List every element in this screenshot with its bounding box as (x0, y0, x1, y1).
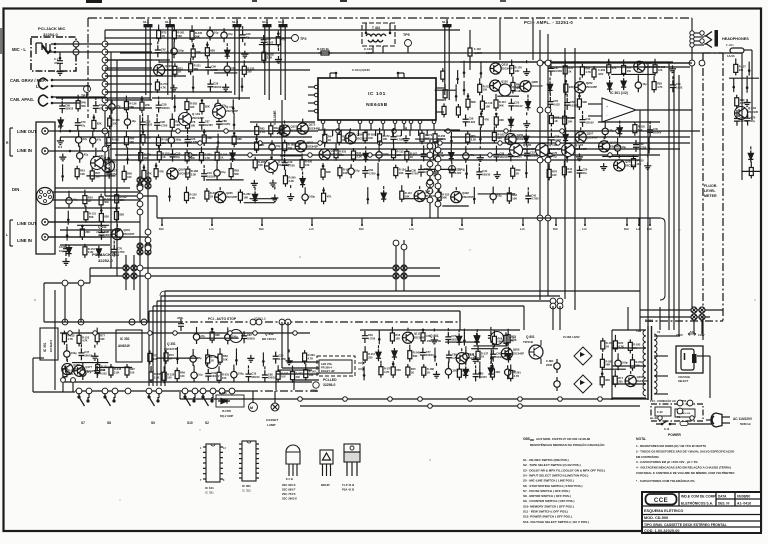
svg-text:0.022: 0.022 (553, 102, 560, 106)
svg-text:R-210: R-210 (220, 152, 228, 156)
svg-text:Q235: Q235 (226, 191, 233, 195)
svg-text:10/16V: 10/16V (161, 51, 169, 55)
svg-text:10K: 10K (175, 123, 180, 127)
svg-text:10K: 10K (567, 170, 572, 174)
svg-text:56K: 56K (605, 363, 610, 367)
svg-text:1K: 1K (210, 194, 213, 198)
svg-text:S1-1: S1-1 (143, 20, 149, 24)
svg-text:68K: 68K (326, 170, 331, 174)
svg-text:4.7K: 4.7K (657, 85, 663, 89)
svg-text:Q113: Q113 (610, 140, 617, 144)
svg-text:Q222: Q222 (586, 81, 593, 85)
svg-text:2SC945P: 2SC945P (586, 85, 597, 89)
svg-text:56K: 56K (104, 200, 109, 204)
svg-text:2×1N4 LS/02: 2×1N4 LS/02 (563, 335, 580, 339)
svg-text:10K: 10K (512, 196, 517, 200)
svg-text:S9 - COUNTER SWITCH ( OFF PO: S9 - COUNTER SWITCH ( OFF POS.) (523, 499, 575, 503)
svg-text:82K: 82K (196, 50, 201, 54)
svg-text:DO 8&R 8: DO 8&R 8 (49, 339, 53, 352)
svg-text:1K: 1K (328, 138, 331, 142)
svg-text:68K: 68K (237, 137, 242, 141)
svg-text:R-261: R-261 (177, 31, 185, 35)
svg-text:100: 100 (167, 376, 172, 380)
svg-text:R42: R42 (274, 126, 279, 130)
svg-text:R-253: R-253 (339, 150, 347, 154)
svg-text:METER: METER (704, 194, 717, 198)
svg-text:S4-2: S4-2 (278, 20, 284, 24)
svg-text:C20: C20 (279, 354, 284, 358)
svg-text:F-102: F-102 (474, 47, 481, 51)
svg-text:10/16V: 10/16V (211, 374, 219, 378)
svg-text:C37: C37 (267, 37, 272, 41)
svg-text:CCE: CCE (654, 497, 668, 504)
svg-text:S7: S7 (81, 421, 85, 425)
svg-text:COM SINAL E CONTROLE DE VOLUME: COM SINAL E CONTROLE DE VOLUME NO MÍNIMO… (636, 470, 735, 475)
svg-text:C20: C20 (176, 152, 181, 156)
svg-text:C26: C26 (213, 81, 218, 85)
svg-text:2.2K: 2.2K (267, 56, 273, 60)
svg-text:R-168: R-168 (427, 367, 435, 371)
svg-text:330: 330 (739, 68, 744, 72)
svg-text:Q297: Q297 (178, 168, 185, 172)
svg-text:47µ: 47µ (276, 144, 281, 148)
svg-text:56K: 56K (497, 340, 502, 344)
svg-text:47µ: 47µ (751, 119, 756, 123)
svg-text:22K: 22K (145, 103, 150, 107)
svg-text:Lch: Lch (309, 227, 314, 231)
svg-text:Rch: Rch (359, 227, 364, 231)
svg-text:10K: 10K (80, 172, 85, 176)
svg-text:C69: C69 (65, 103, 70, 107)
svg-text:0.022: 0.022 (469, 120, 476, 124)
svg-text:1K: 1K (554, 119, 557, 123)
svg-text:10K: 10K (258, 163, 263, 167)
svg-text:S4 - INPUT SELECT SWITCH (LI: S4 - INPUT SELECT SWITCH (LINE/TUN POS.) (523, 473, 588, 477)
svg-text:100/10: 100/10 (426, 353, 434, 357)
svg-text:Q165: Q165 (517, 133, 524, 137)
svg-text:100: 100 (180, 374, 185, 378)
svg-text:0.022: 0.022 (267, 40, 274, 44)
svg-text:1K: 1K (162, 34, 165, 38)
svg-text:Rch: Rch (553, 227, 558, 231)
svg-text:C53: C53 (514, 101, 519, 105)
svg-text:R97: R97 (95, 171, 100, 175)
svg-text:C62: C62 (740, 116, 745, 120)
svg-text:4.7K: 4.7K (160, 85, 166, 89)
svg-text:56K: 56K (112, 141, 117, 145)
svg-text:2.2K: 2.2K (511, 338, 517, 342)
svg-text:100µ: 100µ (383, 152, 389, 156)
svg-text:C99: C99 (211, 65, 216, 69)
svg-text:C70: C70 (751, 115, 756, 119)
svg-text:Q286: Q286 (356, 132, 363, 136)
svg-text:S1 - RE-REC SWITCH (RB POS.): S1 - RE-REC SWITCH (RB POS.) (523, 458, 569, 462)
svg-text:VOLTAGE: VOLTAGE (678, 375, 690, 379)
svg-text:4.7K: 4.7K (384, 370, 390, 374)
svg-text:2SC1815/A: 2SC1815/A (512, 89, 526, 93)
svg-text:R-131: R-131 (89, 212, 97, 216)
svg-text:R-283: R-283 (190, 102, 198, 106)
svg-text:R-290: R-290 (288, 176, 296, 180)
svg-text:S10- MEMORY SWITCH ( OFF POS.: S10- MEMORY SWITCH ( OFF POS.) (523, 504, 574, 508)
svg-text:330: 330 (618, 380, 623, 384)
svg-text:Q327: Q327 (291, 125, 298, 129)
svg-text:22K: 22K (396, 368, 401, 372)
svg-text:PCI-JACK MIC: PCI-JACK MIC (38, 26, 65, 31)
svg-text:56K: 56K (234, 172, 239, 176)
svg-text:10K: 10K (405, 195, 410, 199)
svg-text:2SC945P: 2SC945P (462, 195, 473, 199)
svg-text:10/16V: 10/16V (514, 104, 522, 108)
svg-text:10µ: 10µ (73, 198, 78, 202)
svg-text:R90: R90 (129, 137, 134, 141)
svg-text:22K: 22K (260, 143, 265, 147)
svg-text:0.022: 0.022 (554, 138, 561, 142)
svg-text:2SC945P: 2SC945P (502, 67, 513, 71)
svg-text:4.7/50: 4.7/50 (117, 250, 125, 254)
svg-text:47µ: 47µ (97, 138, 102, 142)
svg-text:10µ: 10µ (221, 170, 226, 174)
svg-text:2SC945P: 2SC945P (523, 147, 535, 151)
svg-text:R-253: R-253 (162, 152, 170, 156)
svg-text:BD135: BD135 (321, 483, 330, 487)
svg-text:Rch: Rch (459, 227, 464, 231)
svg-text:3 - CAPACITORES EM µF ±10%: 3 - CAPACITORES EM µF ±10% 50V , pF ± 5% (636, 460, 698, 464)
svg-text:C88: C88 (222, 119, 227, 123)
svg-text:Lch: Lch (520, 227, 525, 231)
svg-text:C30: C30 (411, 168, 416, 172)
svg-text:R22: R22 (511, 335, 516, 339)
svg-text:C87: C87 (553, 99, 558, 103)
svg-text:IC 101: IC 101 (368, 91, 386, 97)
svg-text:10µ: 10µ (231, 66, 236, 70)
svg-text:330: 330 (296, 375, 301, 379)
svg-text:C67: C67 (554, 66, 559, 70)
svg-text:S2: S2 (205, 421, 209, 425)
svg-text:R22: R22 (618, 341, 623, 345)
svg-text:R-115: R-115 (499, 100, 506, 104)
svg-text:10µ: 10µ (214, 31, 219, 35)
svg-text:47µ: 47µ (99, 106, 104, 110)
svg-text:10K: 10K (153, 357, 158, 361)
svg-text:10K: 10K (343, 171, 348, 175)
svg-text:100: 100 (222, 376, 227, 380)
svg-text:COD. 1-00-32025-00: COD. 1-00-32025-00 (644, 529, 679, 533)
svg-text:4.7/50: 4.7/50 (368, 171, 376, 175)
svg-text:Rch: Rch (159, 227, 164, 231)
svg-text:F-201: F-201 (726, 43, 734, 47)
svg-text:Q144: Q144 (468, 352, 475, 356)
svg-text:R-232: R-232 (247, 66, 255, 70)
svg-text:10K: 10K (383, 137, 388, 141)
svg-text:R-154: R-154 (190, 153, 198, 157)
svg-text:10µ: 10µ (131, 119, 136, 123)
svg-text:Lch: Lch (409, 227, 414, 231)
svg-text:100: 100 (635, 363, 640, 367)
svg-text:R-213: R-213 (462, 369, 470, 373)
svg-text:R31: R31 (568, 66, 573, 70)
svg-text:47µ: 47µ (246, 36, 251, 40)
svg-text:IC 351: IC 351 (43, 342, 47, 352)
svg-text:4.7/50: 4.7/50 (396, 137, 404, 141)
svg-text:R-182: R-182 (267, 52, 275, 56)
svg-text:PR 306-4: PR 306-4 (321, 366, 333, 370)
svg-text:* - CAPACITORES COM TOLERÂNCIA: * - CAPACITORES COM TOLERÂNCIA 5% (636, 478, 695, 483)
svg-text:/16V: /16V (598, 72, 604, 76)
svg-text:C29: C29 (246, 32, 251, 36)
svg-text:2SC945P: 2SC945P (575, 147, 587, 151)
svg-text:C44: C44 (482, 169, 487, 173)
svg-text:R-232: R-232 (120, 195, 128, 199)
svg-text:+: + (606, 105, 608, 109)
svg-text:POWER: POWER (668, 433, 681, 437)
svg-text:R-105 2k: R-105 2k (317, 47, 329, 51)
svg-text:LINE IN: LINE IN (17, 148, 32, 153)
svg-text:82K: 82K (119, 213, 124, 217)
svg-text:R77: R77 (100, 334, 105, 338)
svg-text:R60: R60 (585, 67, 590, 71)
svg-text:R72: R72 (169, 353, 174, 357)
svg-text:R-252: R-252 (635, 360, 643, 364)
svg-text:BD 135/14: BD 135/14 (262, 337, 276, 341)
svg-text:R-151: R-151 (88, 247, 96, 251)
svg-text:IND.E COM DE COMP: IND.E COM DE COMP (681, 495, 716, 499)
svg-text:2SC945P: 2SC945P (123, 232, 134, 236)
svg-text:Q311: Q311 (307, 140, 314, 144)
svg-text:47µ: 47µ (83, 137, 88, 141)
svg-text:R-2: R-2 (58, 145, 63, 149)
svg-text:100/10: 100/10 (482, 173, 490, 177)
svg-text:R73: R73 (153, 353, 158, 357)
svg-text:Lch: Lch (582, 227, 587, 231)
svg-text:82K: 82K (104, 215, 109, 219)
svg-text:C26: C26 (583, 168, 588, 172)
svg-text:L: L (6, 233, 8, 237)
svg-text:R-229: R-229 (308, 353, 316, 357)
svg-text:10µ: 10µ (228, 32, 233, 36)
svg-text:R-262: R-262 (368, 133, 376, 137)
svg-text:R-251: R-251 (222, 372, 230, 376)
svg-text:R63: R63 (234, 169, 239, 173)
svg-text:2SC945P: 2SC945P (165, 68, 176, 72)
svg-text:1K: 1K (211, 358, 214, 362)
svg-text:100/10: 100/10 (499, 155, 507, 159)
svg-text:1K: 1K (427, 371, 430, 375)
svg-text:C98: C98 (160, 120, 165, 124)
svg-text:2.2K: 2.2K (154, 375, 160, 379)
svg-text:R-258: R-258 (438, 134, 446, 138)
svg-text:2SC945P: 2SC945P (549, 147, 561, 151)
svg-text:10/16V: 10/16V (205, 123, 213, 127)
svg-text:Q-108: Q-108 (512, 85, 520, 89)
svg-text:NOTA.: NOTA. (636, 437, 646, 441)
svg-text:C77: C77 (426, 350, 431, 354)
svg-text:IS 1555: IS 1555 (222, 409, 231, 413)
svg-text:R72: R72 (162, 31, 167, 35)
svg-text:OBS: OBS (523, 437, 530, 441)
svg-text:1K: 1K (162, 155, 165, 159)
svg-text:47µ: 47µ (176, 155, 181, 159)
svg-text:IC 352: IC 352 (120, 337, 130, 341)
svg-text:1K: 1K (568, 69, 571, 73)
svg-text:CASSET: CASSET (266, 418, 278, 422)
svg-text:22K: 22K (495, 370, 500, 374)
svg-text:S1-2: S1-2 (165, 20, 171, 24)
svg-text:82K: 82K (97, 121, 102, 125)
svg-text:R-273: R-273 (160, 82, 168, 86)
svg-text:Q233: Q233 (502, 63, 509, 67)
svg-text:0.022: 0.022 (100, 371, 107, 375)
svg-text:R-170: R-170 (384, 367, 392, 371)
svg-text:47µ: 47µ (201, 334, 206, 338)
svg-text:56K: 56K (129, 105, 134, 109)
svg-text:1A/1h: 1A/1h (727, 54, 735, 58)
svg-text:R-113: R-113 (397, 150, 404, 154)
svg-text:TP6: TP6 (311, 389, 317, 393)
svg-text:10µ: 10µ (622, 145, 627, 149)
svg-text:Q177: Q177 (85, 365, 92, 369)
svg-text:56K: 56K (81, 104, 86, 108)
svg-text:C45: C45 (531, 193, 536, 197)
svg-text:RESISTÊNCIAS MEDIDAS NA POSIÇÃ: RESISTÊNCIAS MEDIDAS NA POSIÇÃO GRAVAÇÃO (530, 442, 605, 447)
svg-text:ESQUEMA ELÉTRICO: ESQUEMA ELÉTRICO (644, 508, 683, 513)
svg-text:100: 100 (658, 68, 663, 72)
svg-text:HEADPHONES: HEADPHONES (722, 37, 749, 41)
svg-text:56K: 56K (462, 373, 467, 377)
svg-text:C68: C68 (268, 372, 273, 376)
svg-text:10K: 10K (399, 171, 404, 175)
svg-text:C53: C53 (479, 371, 484, 375)
svg-text:110V: 110V (698, 333, 705, 337)
svg-text:FLUOR.: FLUOR. (704, 184, 717, 188)
svg-text:47p: 47p (54, 61, 59, 65)
svg-text:330: 330 (190, 105, 195, 109)
svg-text:C87: C87 (205, 120, 210, 124)
svg-text:R68: R68 (497, 336, 502, 340)
svg-text:R-137: R-137 (481, 351, 489, 355)
svg-text:C40: C40 (653, 127, 658, 131)
svg-text:2SC1815: 2SC1815 (104, 160, 116, 164)
svg-text:C86: C86 (499, 152, 504, 156)
svg-text:330: 330 (100, 337, 105, 341)
svg-text:PCI-JACK DIN: PCI-JACK DIN (92, 252, 119, 257)
svg-text:R-282: R-282 (243, 192, 251, 196)
svg-text:R-176: R-176 (515, 66, 523, 70)
svg-text:10/16V: 10/16V (653, 131, 661, 135)
svg-text:D-506: D-506 (219, 391, 227, 395)
svg-text:Rch: Rch (259, 227, 264, 231)
svg-text:EM CONTRÁRIO.: EM CONTRÁRIO. (636, 454, 660, 459)
svg-text:1K: 1K (516, 172, 519, 176)
svg-text:S4-1: S4-1 (262, 20, 268, 24)
svg-text:R-120: R-120 (167, 372, 175, 376)
svg-text:1K: 1K (606, 344, 609, 348)
svg-text:S3 - DOLBY NR & MPX FIL.( DO: S3 - DOLBY NR & MPX FIL.( DOLBY ON & MPX… (523, 468, 605, 472)
svg-text:100: 100 (288, 146, 293, 150)
svg-text:LED VOL: LED VOL (321, 362, 333, 366)
svg-text:S12- POWER SWITCH ( OFF POS.): S12- POWER SWITCH ( OFF POS.) (523, 515, 572, 519)
svg-text:Q392: Q392 (462, 191, 469, 195)
svg-text:10/16V: 10/16V (586, 120, 594, 124)
svg-text:10K: 10K (223, 358, 228, 362)
svg-text:C42: C42 (161, 47, 166, 51)
svg-text:DOLBY HR: DOLBY HR (321, 369, 335, 373)
svg-text:10K: 10K (636, 162, 641, 166)
svg-text:TIP41B: TIP41B (523, 340, 533, 344)
svg-text:L-40: L-40 (652, 417, 658, 420)
svg-text:2SC945P: 2SC945P (531, 84, 542, 88)
svg-text:S1-3: S1-3 (232, 20, 238, 24)
svg-text:56K: 56K (195, 35, 200, 39)
svg-text:82K: 82K (605, 378, 610, 382)
svg-text:ELETRÔNICOS S.A.: ELETRÔNICOS S.A. (681, 501, 713, 506)
svg-text:4.7K: 4.7K (260, 130, 266, 134)
svg-text:Q111: Q111 (414, 332, 421, 336)
svg-text:Q200: Q200 (513, 348, 520, 352)
svg-text:R15: R15 (411, 367, 416, 371)
svg-text:100µ: 100µ (309, 194, 315, 198)
svg-text:2SC 693 F: 2SC 693 F (282, 488, 296, 492)
svg-text:82K: 82K (499, 118, 504, 122)
svg-text:4.7K: 4.7K (514, 374, 520, 378)
svg-text:4.7/50: 4.7/50 (191, 140, 199, 144)
svg-text:A1- 0416: A1- 0416 (737, 502, 751, 506)
svg-text:100µ: 100µ (238, 372, 244, 376)
svg-text:2200: 2200 (546, 363, 553, 367)
svg-text:47µ: 47µ (81, 123, 86, 127)
svg-text:R-197: R-197 (281, 371, 289, 375)
svg-text:TP2: TP2 (300, 37, 307, 41)
svg-text:100: 100 (305, 163, 310, 167)
svg-text:AN6249: AN6249 (118, 344, 130, 348)
svg-text:2SC 2603 E: 2SC 2603 E (282, 497, 297, 501)
svg-text:330: 330 (247, 70, 252, 74)
svg-text:1 - RESISTORES EM OHMS (Ω): 1 - RESISTORES EM OHMS (Ω) ½W ±5% W=WATT… (636, 444, 706, 448)
svg-text:S9: S9 (151, 421, 155, 425)
svg-text:330: 330 (368, 355, 373, 359)
svg-text:C97: C97 (104, 230, 109, 234)
svg-text:LINE OUT: LINE OUT (17, 129, 37, 134)
svg-text:10K: 10K (120, 198, 125, 202)
svg-text:T P 3: T P 3 (425, 190, 433, 194)
svg-text:R-272: R-272 (383, 134, 391, 138)
svg-text:C43: C43 (586, 117, 591, 121)
svg-text:100: 100 (281, 375, 286, 379)
svg-text:2SC945P: 2SC945P (278, 163, 290, 167)
svg-text:2SC945P: 2SC945P (178, 172, 189, 176)
svg-text:C63: C63 (368, 168, 373, 172)
svg-text:100: 100 (395, 336, 400, 340)
svg-text:TP1: TP1 (81, 94, 87, 98)
svg-text:47K: 47K (484, 118, 489, 122)
svg-text:100: 100 (130, 370, 135, 374)
svg-text:2SC945P: 2SC945P (513, 352, 524, 356)
svg-text:10K: 10K (515, 69, 520, 73)
svg-text:Q220: Q220 (165, 64, 172, 68)
svg-text:DES. Nº: DES. Nº (718, 502, 731, 506)
svg-text:82K: 82K (205, 104, 210, 108)
svg-text:R-274: R-274 (204, 153, 212, 157)
svg-text:AUX MOD. CS/FTE P/ CD-500 1: AUX MOD. CS/FTE P/ CD-500 12-08-80 (536, 437, 591, 441)
svg-text:47µ: 47µ (552, 154, 557, 158)
svg-text:0.022: 0.022 (146, 123, 153, 127)
svg-text:47µ: 47µ (87, 370, 92, 374)
svg-text:2.2K: 2.2K (471, 137, 477, 141)
svg-text:TP5: TP5 (403, 33, 410, 37)
svg-text:C76: C76 (117, 247, 122, 251)
svg-text:R83: R83 (471, 134, 476, 138)
svg-text:1K: 1K (220, 156, 223, 160)
